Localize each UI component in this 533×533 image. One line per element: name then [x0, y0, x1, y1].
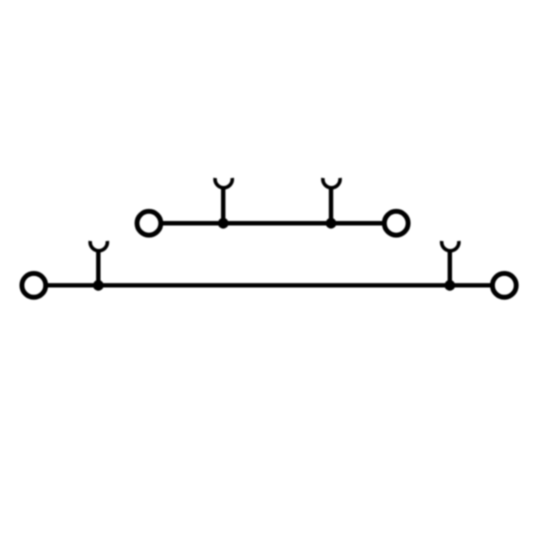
terminal clamp 2.1 (upper level, left ring) — [137, 211, 161, 235]
wire: stem of left jumper socket, lower level — [96, 249, 100, 285]
junction dot D (lower rail, right tap) — [444, 280, 455, 291]
jumper/test socket fork (lower left) — [90, 241, 107, 251]
junction dot B (upper rail, right tap) — [326, 218, 337, 229]
jumper/test socket fork (upper right) — [323, 178, 340, 188]
jumper/test socket fork (upper left) — [215, 178, 232, 188]
wire: upper level rail — [163, 221, 383, 225]
terminal clamp 2.2 (upper level, right ring) — [384, 211, 408, 235]
wire: stem of right jumper socket, lower level — [448, 249, 452, 285]
junction dot A (upper rail, left tap) — [218, 218, 229, 229]
wire: stem of left jumper socket, upper level — [221, 186, 225, 223]
terminal clamp 1.2 (lower level, right ring) — [492, 273, 516, 297]
jumper/test socket fork (lower right) — [442, 241, 459, 251]
terminal clamp 1.1 (lower level, left ring) — [22, 273, 46, 297]
wire: lower level rail — [48, 283, 491, 287]
junction dot C (lower rail, left tap) — [93, 280, 104, 291]
wire: stem of right jumper socket, upper level — [329, 186, 333, 223]
